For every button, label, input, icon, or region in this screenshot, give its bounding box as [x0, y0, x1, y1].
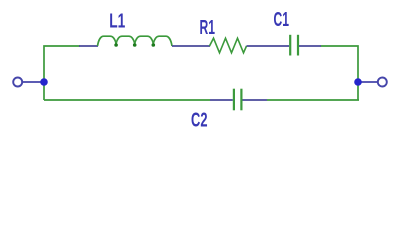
svg-text:C2: C2 [191, 109, 208, 131]
terminal left [13, 78, 22, 87]
inductor L1 lead left [79, 45, 98, 47]
svg-text:R1: R1 [200, 17, 216, 39]
capacitor C2 plates [234, 89, 242, 111]
node junction left [40, 78, 48, 86]
inductor L1 body [98, 36, 173, 46]
wire bottom rail right green [267, 99, 359, 101]
wire bottom rail left green [44, 99, 210, 101]
wire left terminal stub [20, 81, 44, 83]
wire top rail left green [44, 46, 80, 100]
node junction right [354, 78, 362, 86]
wire right terminal stub [358, 81, 380, 83]
svg-text:C1: C1 [274, 9, 290, 31]
capacitor C2 lead left [210, 99, 233, 101]
capacitor C1 plates [290, 35, 298, 56]
wire top rail right green [321, 46, 359, 100]
terminal right [378, 78, 387, 87]
inductor L1 junction loops [114, 43, 155, 47]
capacitor C1 lead right [299, 45, 321, 47]
resistor R1 body [210, 38, 247, 53]
svg-text:L1: L1 [109, 10, 125, 32]
wire blue between L1 and R1 [172, 45, 210, 47]
resistor R1 lead right [247, 45, 290, 47]
capacitor C2 lead right [243, 99, 268, 101]
